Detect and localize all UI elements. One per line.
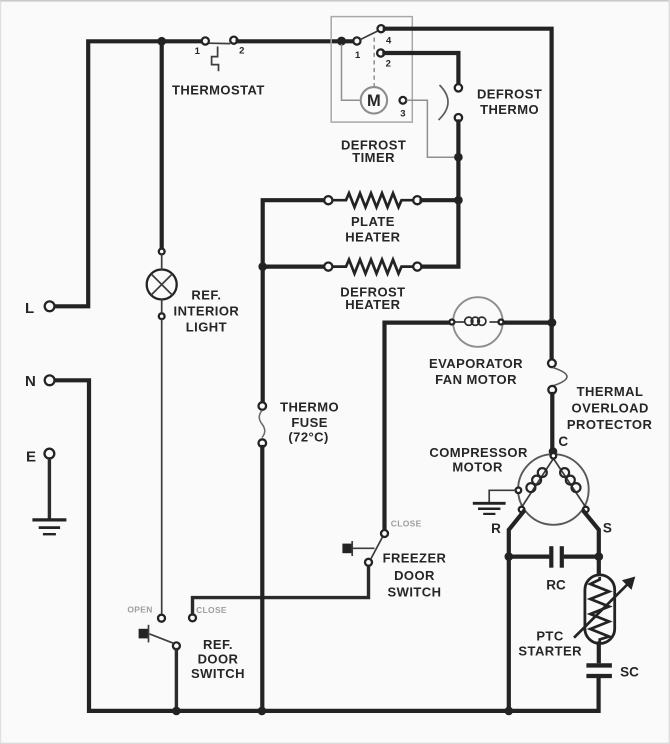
- label THERMO FUSE 72C: [280, 399, 339, 444]
- label DEFROST HEATER: [340, 284, 405, 311]
- ground earth symbol at compressor: [473, 503, 506, 514]
- compressor case pin: [516, 488, 522, 494]
- terminal E: [26, 448, 54, 465]
- svg-text:3: 3: [400, 109, 405, 120]
- wire timer contact 3 to defrost heater node: [407, 100, 456, 157]
- wire thermostat to defrost timer: [238, 39, 354, 43]
- svg-text:REF.: REF.: [191, 288, 221, 303]
- svg-text:DEFROST: DEFROST: [477, 87, 542, 102]
- node junction ref switch on neutral rail: [172, 707, 181, 716]
- thermo fuse upper terminal: [259, 402, 267, 410]
- compressor start winding coil: [526, 468, 546, 492]
- svg-text:E: E: [26, 448, 36, 465]
- thermal overload bimetal element: [553, 368, 567, 386]
- node junction timer input: [337, 37, 346, 46]
- wire plate heater left branch: [263, 200, 325, 401]
- label RC: [546, 578, 566, 593]
- PTC starter body: [585, 575, 615, 644]
- svg-text:FUSE: FUSE: [291, 415, 327, 430]
- freezer door switch plunger: [342, 541, 374, 556]
- thermal overload upper terminal: [548, 359, 556, 367]
- evaporator fan motor body: [453, 297, 503, 347]
- label THERMOSTAT: [172, 82, 265, 97]
- thermostat contact 1: [195, 37, 209, 56]
- evaporator fan motor right pin: [499, 320, 504, 325]
- capacitor RC: [551, 546, 562, 568]
- svg-text:PLATE: PLATE: [351, 214, 395, 229]
- label FREEZER DOOR SWITCH: [383, 550, 447, 599]
- defrost timer enclosure box: [331, 17, 412, 123]
- svg-text:2: 2: [386, 59, 391, 70]
- compressor run winding coil: [560, 468, 580, 492]
- svg-text:2: 2: [239, 46, 244, 57]
- evaporator fan motor internal leads: [454, 321, 498, 323]
- defrost timer motor M: [361, 87, 387, 113]
- svg-text:RC: RC: [546, 578, 566, 593]
- lamp terminal lower: [159, 313, 165, 319]
- thermal overload lower terminal: [548, 386, 556, 394]
- wire lamp to ref door switch open contact: [161, 319, 163, 614]
- defrost timer contact 4: [378, 25, 393, 46]
- svg-text:THERMO: THERMO: [280, 399, 339, 414]
- svg-text:4: 4: [386, 35, 392, 46]
- evaporator fan motor winding: [465, 317, 486, 325]
- ground earth symbol at E: [32, 520, 66, 534]
- svg-text:1: 1: [195, 46, 201, 57]
- svg-text:COMPRESSOR: COMPRESSOR: [429, 445, 528, 460]
- wire compressor case to earth: [489, 490, 515, 502]
- label EVAPORATOR FAN MOTOR: [429, 356, 523, 387]
- wire thermo fuse to neutral rail: [260, 447, 264, 709]
- label REF. INTERIOR LIGHT: [174, 288, 240, 335]
- label REF. DOOR SWITCH: [191, 637, 245, 681]
- wire overload to compressor C: [550, 394, 554, 451]
- svg-text:TIMER: TIMER: [352, 150, 395, 165]
- node junction compressor C: [549, 434, 569, 456]
- node junction defrost heater left: [258, 262, 267, 271]
- node junction timer-3 tap: [454, 153, 463, 162]
- plate heater left terminal: [324, 196, 332, 204]
- defrost timer contact 3: [400, 97, 407, 120]
- compressor motor body: [518, 454, 589, 525]
- svg-text:R: R: [491, 521, 501, 536]
- label COMPRESSOR MOTOR: [429, 445, 528, 475]
- svg-text:EVAPORATOR: EVAPORATOR: [429, 356, 523, 371]
- node junction R lead at RC: [505, 552, 514, 561]
- defrost thermo lower terminal: [455, 114, 462, 121]
- terminal L: [25, 300, 54, 317]
- ref door switch contact OPEN: [127, 605, 165, 622]
- wire compressor R to neutral rail: [509, 512, 524, 709]
- svg-text:1: 1: [355, 50, 361, 61]
- svg-text:HEATER: HEATER: [345, 230, 400, 245]
- wire compressor S to PTC: [584, 512, 599, 574]
- defrost timer blade 1-4: [360, 31, 378, 40]
- svg-text:SWITCH: SWITCH: [191, 666, 245, 681]
- lamp REF. INTERIOR LIGHT: [147, 270, 177, 300]
- freezer door switch common pole: [365, 559, 372, 566]
- terminal N: [25, 373, 55, 390]
- wire plate heater to node: [422, 198, 457, 202]
- label PLATE HEATER: [345, 214, 400, 245]
- node junction R lead on neutral rail: [505, 707, 514, 716]
- ref door switch plunger: [139, 625, 149, 643]
- compressor pin C: [551, 453, 557, 459]
- wire E to earth: [48, 459, 51, 519]
- wire ref close contact to freezer switch common: [193, 567, 369, 615]
- defrost heater right terminal: [413, 263, 421, 271]
- svg-text:STARTER: STARTER: [518, 643, 582, 658]
- wire evaporator fan branch riser: [385, 323, 449, 530]
- svg-text:M: M: [367, 92, 381, 110]
- svg-text:REF.: REF.: [203, 637, 233, 652]
- wire PTC to SC: [597, 644, 601, 662]
- svg-text:SC: SC: [620, 664, 639, 679]
- svg-text:C: C: [558, 434, 568, 449]
- svg-text:HEATER: HEATER: [345, 297, 400, 312]
- defrost heater left terminal: [324, 263, 332, 271]
- resistor plate heater: [333, 193, 414, 207]
- PTC variability arrow: [574, 577, 635, 638]
- label DEFROST TIMER: [341, 137, 406, 165]
- freezer door switch blade: [371, 537, 383, 559]
- node junction live rail / lamp branch: [157, 37, 166, 46]
- svg-text:L: L: [25, 300, 34, 317]
- ref door switch blade: [150, 634, 174, 643]
- thermo fuse element: [259, 411, 265, 438]
- wire lamp stubs: [161, 254, 163, 314]
- ref door switch common pole: [173, 642, 180, 649]
- wire lamp branch upper: [160, 43, 164, 249]
- wire ref switch common to neutral rail: [175, 650, 178, 711]
- thermostat contact 2: [230, 37, 244, 57]
- wire L lead and live rail to thermostat: [56, 41, 202, 306]
- wire defrost thermo to heater branch: [422, 122, 459, 267]
- wire N lead and neutral rail along bottom: [56, 380, 599, 711]
- evaporator fan motor left pin: [449, 320, 454, 325]
- compressor pin S: [583, 507, 589, 513]
- svg-text:S: S: [603, 520, 612, 535]
- svg-text:CLOSE: CLOSE: [391, 518, 422, 528]
- label DEFROST THERMO: [477, 87, 542, 117]
- lamp terminal upper: [159, 249, 165, 255]
- freezer door switch contact CLOSE: [381, 518, 422, 537]
- svg-text:DOOR: DOOR: [198, 652, 239, 667]
- svg-text:THERMOSTAT: THERMOSTAT: [172, 82, 265, 97]
- svg-text:MOTOR: MOTOR: [452, 460, 503, 475]
- wire RC right lead: [566, 554, 599, 558]
- svg-text:OPEN: OPEN: [127, 605, 152, 615]
- wire RC left lead: [509, 554, 548, 558]
- resistor PTC element: [590, 577, 609, 642]
- wire defrost heater left lead: [263, 265, 325, 269]
- svg-text:INTERIOR: INTERIOR: [174, 304, 240, 319]
- node junction fuse on neutral rail: [258, 707, 267, 716]
- svg-text:THERMAL: THERMAL: [577, 384, 644, 399]
- node junction fan on right rail: [548, 318, 557, 327]
- svg-text:FREEZER: FREEZER: [383, 550, 447, 565]
- svg-text:OVERLOAD: OVERLOAD: [572, 400, 649, 415]
- resistor defrost heater: [333, 260, 414, 274]
- defrost thermo bimetal arc: [439, 85, 449, 120]
- svg-text:CLOSE: CLOSE: [196, 605, 227, 615]
- label THERMAL OVERLOAD PROTECTOR: [567, 384, 653, 432]
- node junction plate heater tap: [454, 196, 463, 205]
- ref door switch contact CLOSE: [189, 605, 227, 621]
- thermostat sensing element: [212, 47, 219, 72]
- label pin R: [491, 521, 501, 536]
- svg-text:THERMO: THERMO: [480, 102, 539, 117]
- defrost timer contact 2: [377, 49, 391, 69]
- wire timer contact 2 to defrost thermo: [384, 53, 458, 85]
- wire timer internal to motor M: [342, 44, 360, 100]
- plate heater right terminal: [413, 196, 421, 204]
- svg-text:N: N: [25, 373, 36, 390]
- svg-text:PROTECTOR: PROTECTOR: [567, 417, 653, 432]
- label PTC STARTER: [518, 628, 582, 658]
- capacitor SC: [586, 665, 612, 676]
- svg-text:PTC: PTC: [536, 628, 564, 643]
- thermo fuse lower terminal: [259, 439, 267, 447]
- defrost timer cam dashed link: [373, 38, 375, 88]
- compressor pin R: [519, 507, 525, 513]
- compressor winding arms: [522, 459, 586, 508]
- label pin S: [603, 520, 612, 535]
- defrost timer contact 1: [353, 37, 361, 61]
- svg-text:FAN MOTOR: FAN MOTOR: [435, 372, 517, 387]
- label SC: [620, 664, 639, 679]
- wire timer contact 4 to right rail: [385, 29, 552, 360]
- svg-text:SWITCH: SWITCH: [388, 585, 442, 600]
- svg-text:DOOR: DOOR: [394, 568, 435, 583]
- defrost thermo upper terminal: [455, 84, 462, 91]
- svg-text:LIGHT: LIGHT: [186, 320, 227, 335]
- node junction S lead at RC: [595, 552, 604, 561]
- svg-text:(72°C): (72°C): [288, 430, 328, 445]
- thermostat blade: [209, 42, 231, 44]
- wire fan motor to right rail: [505, 321, 550, 325]
